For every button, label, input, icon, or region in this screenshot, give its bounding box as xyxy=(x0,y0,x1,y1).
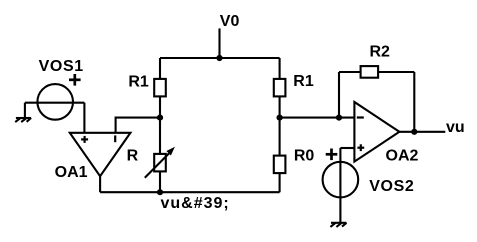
wire R0 leg xyxy=(279,118,281,193)
resistor R0 body xyxy=(274,156,286,174)
wire feedback right drop xyxy=(413,72,415,132)
wire variable resistor leg xyxy=(159,118,161,193)
node junction dot left R1 bottom xyxy=(157,115,163,121)
wire OA2 output xyxy=(399,131,445,133)
ground G1 xyxy=(15,118,31,122)
svg-text:vu&#39;: vu&#39; xyxy=(161,195,230,212)
variable resistor arrow xyxy=(145,153,169,177)
node junction dot bottom rail xyxy=(157,189,163,195)
wire OA1 noninverting riser xyxy=(83,103,85,133)
voltage source VOS2 circle xyxy=(323,162,359,198)
resistor R1 left body xyxy=(154,79,166,97)
svg-text:OA2: OA2 xyxy=(386,147,419,164)
wire top rail xyxy=(160,57,280,59)
wire VOS1 ground drop xyxy=(24,103,26,118)
wire left R1 leg xyxy=(159,58,161,118)
wire VOS2 riser xyxy=(339,148,341,223)
op-amp OA1 triangle xyxy=(70,133,131,176)
node junction dot feedback tap xyxy=(336,115,342,121)
svg-text:R0: R0 xyxy=(294,147,315,164)
svg-text:R: R xyxy=(127,147,139,164)
node junction dot output xyxy=(411,129,417,135)
voltage source VOS1 circle xyxy=(37,84,73,120)
wire feedback top xyxy=(339,71,414,73)
svg-text:vu: vu xyxy=(446,119,465,136)
svg-text:R1: R1 xyxy=(128,74,149,91)
wire from left junction to OA1 inverting input xyxy=(116,118,160,133)
VOS1 plus polarity mark xyxy=(69,74,81,86)
OA2 plus input mark xyxy=(357,144,364,151)
svg-text:R1: R1 xyxy=(293,73,314,90)
svg-text:VOS2: VOS2 xyxy=(369,178,414,195)
variable resistor R body xyxy=(154,154,166,172)
op-amp OA2 triangle xyxy=(354,102,399,162)
svg-text:V0: V0 xyxy=(220,13,240,30)
svg-text:R2: R2 xyxy=(369,43,390,60)
wire OA2 plus input stub xyxy=(340,147,354,149)
resistor R2 body xyxy=(361,66,379,78)
resistor R1 right body xyxy=(274,79,286,97)
svg-text:OA1: OA1 xyxy=(55,164,88,181)
wire VOS1 horizontal xyxy=(25,102,85,104)
wire inverting node to OA2 xyxy=(280,117,355,119)
wire OA1 output drop xyxy=(99,176,101,192)
OA1 plus input mark xyxy=(81,136,88,143)
svg-text:VOS1: VOS1 xyxy=(39,58,84,75)
wire feedback left riser xyxy=(338,72,340,118)
OA1 minus input mark xyxy=(114,135,116,142)
ground G2 xyxy=(330,223,346,227)
node junction dot top xyxy=(216,55,222,61)
VOS2 plus polarity mark xyxy=(326,149,338,161)
OA2 minus input mark xyxy=(357,116,364,118)
wire right R1 leg xyxy=(279,58,281,118)
wire bottom rail xyxy=(100,191,280,193)
wire V0 riser xyxy=(218,28,220,58)
node junction dot right R1 bottom xyxy=(277,115,283,121)
